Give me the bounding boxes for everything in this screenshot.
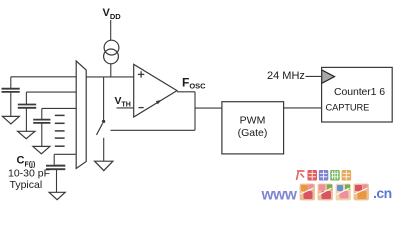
ground for C3 <box>33 146 50 153</box>
label CF(j) 10-30 pF Typical <box>8 155 50 191</box>
label VDD <box>103 7 122 21</box>
comparator U2 <box>134 64 177 117</box>
svg-text:CAPTURE: CAPTURE <box>326 103 370 113</box>
ground for C1 <box>3 116 20 124</box>
comparator minus sign <box>139 107 144 109</box>
comparator plus sign <box>138 73 144 75</box>
mux U1 <box>76 61 86 169</box>
watermark line 1: small colored ideograph-like marks <box>297 170 352 181</box>
capacitor C4 CF(j) <box>53 154 55 165</box>
wire to PWM input <box>195 107 222 109</box>
svg-text:VDD: VDD <box>103 7 122 21</box>
wire VTH to inverting input <box>117 107 134 109</box>
wire current source to main node <box>110 64 112 78</box>
svg-text:24 MHz: 24 MHz <box>267 70 305 82</box>
wire PWM to CAPTURE <box>284 107 322 109</box>
wire VDD stub <box>110 20 112 40</box>
svg-text:10-30 pF: 10-30 pF <box>8 168 50 180</box>
watermark line 2: www + ornate colored marks + .cn <box>261 183 392 204</box>
svg-text:PWM: PWM <box>240 115 266 127</box>
current source I1 <box>104 40 119 55</box>
switch S1 arm <box>97 123 103 135</box>
svg-text:Counter1 6: Counter1 6 <box>334 86 385 98</box>
capacitor C1 <box>10 77 12 88</box>
mux input ticks <box>55 114 65 116</box>
wire output down leg <box>194 92 196 131</box>
ground for C4 <box>49 192 65 199</box>
svg-text:VTH: VTH <box>115 95 131 109</box>
label VTH <box>115 95 131 109</box>
clock buffer triangle <box>322 70 335 84</box>
wire switch branch <box>103 77 105 121</box>
svg-text:Typical: Typical <box>10 179 43 191</box>
svg-text:.cn: .cn <box>373 185 392 201</box>
junction dot switch top contact <box>102 120 105 123</box>
wire C2 to mux input 2 <box>26 91 76 93</box>
PWM block <box>222 102 284 154</box>
wire comparator output <box>177 91 195 93</box>
feedback wire to switch <box>111 129 196 131</box>
wire 24MHz to clock buffer <box>306 75 322 77</box>
wire C4 to mux bottom input <box>54 153 76 155</box>
ground for C2 <box>18 131 35 138</box>
wire mux output to comparator <box>86 76 134 78</box>
capacitor C2 <box>25 92 27 104</box>
svg-text:CF(j): CF(j) <box>17 155 36 169</box>
svg-text:www: www <box>261 187 298 204</box>
wire switch bottom contact <box>103 138 105 161</box>
counter block <box>322 67 393 122</box>
label FOSC <box>182 76 206 91</box>
label 24 MHz <box>267 70 305 82</box>
wire C1 to mux input 1 <box>11 76 76 78</box>
arrowhead on comparator lower edge <box>156 100 162 105</box>
wire C3 to mux input 3 <box>42 107 76 109</box>
svg-text:(Gate): (Gate) <box>238 127 268 139</box>
capacitor C3 <box>41 108 43 119</box>
svg-text:FOSC: FOSC <box>182 76 206 91</box>
ground for switch <box>95 161 113 170</box>
